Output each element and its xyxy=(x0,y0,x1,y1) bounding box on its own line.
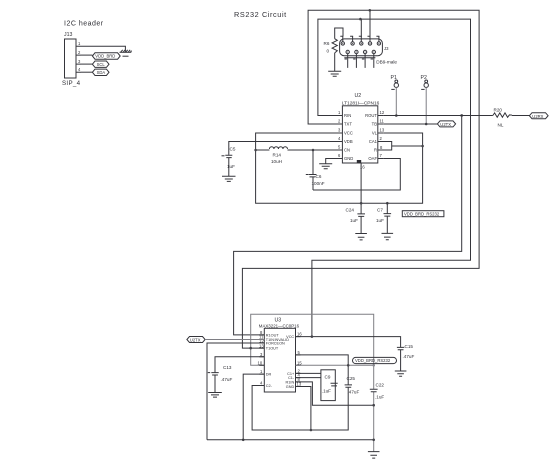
J13 pin stubs xyxy=(76,46,81,72)
svg-text:R20: R20 xyxy=(494,108,503,113)
svg-text:.47uF: .47uF xyxy=(348,390,360,395)
net label U2TX (bottom) xyxy=(187,337,205,343)
svg-text:CN: CN xyxy=(344,148,350,153)
wire C6 bottom to U2 pin7 xyxy=(313,159,400,191)
VL net loop: U2 pin3 / pin13 / C24 / C7 xyxy=(256,133,423,203)
capacitor C22 xyxy=(370,389,378,391)
inner bus wire: U2 pin1 / DB9 pin3 / down right side to U3 VCC xyxy=(312,19,471,337)
svg-text:C13: C13 xyxy=(223,365,232,370)
capacitor C24 xyxy=(357,214,365,234)
resistor R20 NL xyxy=(493,113,512,117)
U2 right pin numbers xyxy=(380,110,385,158)
wire pin2 xyxy=(81,54,92,56)
svg-text:VDD_BRD_RS232: VDD_BRD_RS232 xyxy=(404,211,440,216)
svg-text:U2RX: U2RX xyxy=(532,114,543,119)
power label VDD_BRD_RS232 (boxed) xyxy=(402,211,444,217)
svg-text:13: 13 xyxy=(259,343,264,348)
ground rail at bottom xyxy=(207,439,374,441)
svg-text:TXT: TXT xyxy=(344,122,352,127)
chassis ground (hatched) xyxy=(120,50,132,56)
DB9 top stub ticks xyxy=(340,35,379,37)
svg-text:GND: GND xyxy=(286,385,295,389)
DB9 bottom row pins xyxy=(346,50,375,53)
net label SDA xyxy=(92,69,109,75)
svg-text:C24: C24 xyxy=(346,208,355,213)
svg-text:C25: C25 xyxy=(347,376,356,381)
wire U3 pin5 down to C25 xyxy=(296,355,349,385)
svg-text:VDD_BRD_RS232: VDD_BRD_RS232 xyxy=(355,358,391,363)
wire ROUT tap down to U3 R1OUT xyxy=(234,116,462,335)
wire pin1 to chassis ground xyxy=(81,46,125,52)
wire U3 R1IN loop xyxy=(296,382,374,405)
svg-text:CA1: CA1 xyxy=(369,139,378,144)
svg-text:FORCEON: FORCEON xyxy=(266,342,285,346)
wire U2TX to U3 T1IN xyxy=(205,339,264,341)
svg-text:C6: C6 xyxy=(316,174,322,179)
svg-text:.1uF: .1uF xyxy=(322,389,331,394)
svg-text:100nF: 100nF xyxy=(312,181,325,186)
DB9 bottom pin stubs xyxy=(348,54,374,68)
capacitor C13 xyxy=(211,373,218,393)
charge pump bracket U2 pins 2/8 xyxy=(378,142,423,151)
U2 left pin stubs xyxy=(337,116,342,159)
ground below C7 xyxy=(382,233,394,239)
svg-text:R1IN: R1IN xyxy=(286,380,295,384)
ground below R6 xyxy=(328,71,341,76)
wire U2 pin4 to C5 xyxy=(229,142,343,155)
capacitor C7 xyxy=(384,203,392,233)
svg-text:ROUT: ROUT xyxy=(365,113,377,118)
junction R14 wire to VL vertical xyxy=(254,149,257,152)
U2 right pin names xyxy=(365,113,378,161)
svg-text:R: R xyxy=(374,148,377,153)
wire U3 VCC to C15 xyxy=(296,337,401,348)
net label SCL xyxy=(92,61,109,67)
svg-text:SDA: SDA xyxy=(97,70,106,75)
svg-text:1uF: 1uF xyxy=(350,218,358,223)
svg-text:OAF: OAF xyxy=(368,156,377,161)
junction C7 on VL wire xyxy=(386,202,389,205)
ground below C13 xyxy=(208,393,222,398)
junction C6 tap on pin5 wire xyxy=(312,149,315,152)
svg-text:R14: R14 xyxy=(273,153,282,158)
wire U3 pin1 EN down to rail xyxy=(243,374,264,440)
svg-text:0: 0 xyxy=(327,49,330,54)
wire R6 to ground xyxy=(334,53,336,71)
U2 left pin names xyxy=(344,113,353,161)
junction DB9 pin3 to inner bus xyxy=(359,18,362,21)
junction C24 on VL wire xyxy=(360,202,363,205)
svg-text:C7: C7 xyxy=(377,208,383,213)
svg-text:10uH: 10uH xyxy=(271,159,282,164)
capacitor C25 xyxy=(345,385,352,387)
wire U3 C1+ to C9 box xyxy=(296,372,321,374)
svg-text:SCL: SCL xyxy=(97,62,106,67)
svg-text:DB9-male: DB9-male xyxy=(376,60,397,65)
svg-text:.47uF: .47uF xyxy=(403,354,415,359)
U2 bottom pad pin 16 xyxy=(357,160,361,163)
ground below rail xyxy=(368,452,380,459)
U2 left pin numbers xyxy=(338,110,341,158)
capacitor C15 xyxy=(397,347,404,370)
connector DB9 male J3 xyxy=(340,39,383,58)
junction bracket to VL vertical xyxy=(421,145,424,148)
wire U3 FORCEON down to rail xyxy=(207,343,264,440)
test point P1 xyxy=(391,75,399,117)
U3 left pin stubs xyxy=(259,335,264,386)
power label VDD_BRD_RS232 (oval) xyxy=(353,357,397,363)
svg-text:13: 13 xyxy=(380,128,385,133)
svg-text:GND: GND xyxy=(344,156,353,161)
svg-text:.1uF: .1uF xyxy=(375,395,384,400)
junction ROUT tap xyxy=(460,114,463,117)
svg-text:RS232 Circuit: RS232 Circuit xyxy=(234,10,287,19)
junction T1OUT to pin10 vertical xyxy=(249,347,252,350)
svg-text:TB: TB xyxy=(372,122,378,127)
U3 left pin numbers xyxy=(258,330,265,386)
DB9 top row pins xyxy=(341,42,381,45)
svg-text:RIN: RIN xyxy=(344,113,351,118)
svg-text:C15: C15 xyxy=(405,344,414,349)
wire U2 pin6 to ground xyxy=(326,159,343,164)
junction DB9 pin4 to outer bus xyxy=(369,9,372,12)
wire U3 pin15 (grey) xyxy=(296,364,374,366)
svg-text:VDD_BRD: VDD_BRD xyxy=(95,54,115,59)
svg-text:U2TX: U2TX xyxy=(440,122,451,127)
svg-text:1uF: 1uF xyxy=(376,218,384,223)
outer bus wire: U2 pin2 / DB9 pin4 / down right side to U3 T1OUT xyxy=(242,10,479,348)
wire U3 C1- to C9 box xyxy=(296,377,321,379)
U3 right pin stubs xyxy=(296,337,301,387)
svg-text:U2TX: U2TX xyxy=(190,338,201,343)
wire U2 pin5 through inductor R14 xyxy=(256,149,343,151)
wire pin3 xyxy=(81,63,92,65)
test point P2 xyxy=(421,75,429,125)
svg-text:C5: C5 xyxy=(230,147,236,152)
svg-text:VDB: VDB xyxy=(344,139,353,144)
wire pin4 xyxy=(81,71,92,73)
svg-text:.47uF: .47uF xyxy=(221,377,233,382)
ground below U2 pin6 xyxy=(319,164,332,169)
svg-text:C22: C22 xyxy=(376,383,385,388)
svg-text:C2-: C2- xyxy=(266,384,273,388)
svg-text:R1OUT: R1OUT xyxy=(266,333,280,337)
svg-text:NL: NL xyxy=(498,123,504,128)
U2 right pin stubs xyxy=(378,116,383,159)
U3 right pin names xyxy=(286,335,295,389)
net label U2TX (top) xyxy=(437,121,455,127)
U3 right pin numbers xyxy=(297,332,303,387)
svg-text:VL: VL xyxy=(372,131,378,136)
svg-text:10: 10 xyxy=(258,360,263,365)
capacitor C5 xyxy=(225,155,232,176)
wire DB9 pin1 to R6 xyxy=(335,28,343,39)
wire U3 pin3 to C13 xyxy=(215,357,264,373)
wire U2 pin11 to U2TX label xyxy=(383,123,437,125)
svg-text:1uF: 1uF xyxy=(227,164,235,169)
svg-text:SIP_4: SIP_4 xyxy=(62,80,81,87)
ground below C24 xyxy=(355,234,367,240)
U3 left pin names xyxy=(266,333,289,388)
capacitor C6 xyxy=(309,150,317,190)
svg-text:J13: J13 xyxy=(64,32,72,38)
inductor R14 10uH xyxy=(269,147,287,149)
svg-text:J3: J3 xyxy=(384,46,389,51)
resistor R6 xyxy=(332,39,337,53)
wire U3 pin4 C2- loop to C25 bottom xyxy=(252,386,348,431)
svg-text:I2C header: I2C header xyxy=(64,21,104,28)
net label U2RX xyxy=(529,113,548,119)
svg-text:R6: R6 xyxy=(324,41,330,46)
svg-text:16: 16 xyxy=(297,332,302,337)
capacitor C9 (boxed) xyxy=(321,370,335,401)
svg-text:12: 12 xyxy=(380,110,385,115)
svg-text:VCC: VCC xyxy=(286,335,294,339)
svg-text:DR: DR xyxy=(266,373,272,377)
wire U2 pin12 ROUT to R20 xyxy=(383,115,493,117)
svg-text:15: 15 xyxy=(297,360,302,365)
svg-text:T1OUT: T1OUT xyxy=(266,347,279,351)
svg-text:U2: U2 xyxy=(355,93,362,99)
wire U3 GND pin down to loop xyxy=(296,387,311,431)
svg-text:VCC: VCC xyxy=(344,131,353,136)
net label VDD_BRD xyxy=(92,53,120,59)
wire U3 pin10 box loop (grey) xyxy=(251,314,374,389)
DB9 top pin stubs xyxy=(343,10,379,41)
ground below C15 xyxy=(395,371,407,376)
wire U2 pad 16 down to C24 xyxy=(360,163,362,214)
DB9 bottom stub ticks xyxy=(345,58,374,60)
svg-text:C9: C9 xyxy=(325,375,331,380)
ground below C5 xyxy=(222,176,236,181)
svg-text:11: 11 xyxy=(380,119,385,124)
